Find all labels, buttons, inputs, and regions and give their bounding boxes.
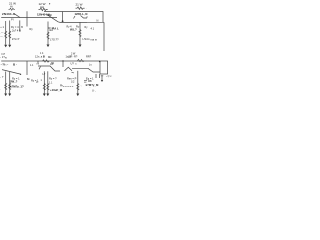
svg-text:U?: U? <box>71 61 75 65</box>
svg-text:AA: AA <box>40 5 44 9</box>
svg-text:2y? 4 B: 2y? 4 B <box>12 28 21 32</box>
svg-text:k?M?y_1?: k?M?y_1? <box>10 84 24 88</box>
svg-text:L?O.??: L?O.?? <box>50 38 59 42</box>
svg-text:U·,: U·, <box>92 89 96 93</box>
svg-text:4 1: 4 1 <box>91 27 95 31</box>
svg-text:+10uF_M: +10uF_M <box>50 88 63 92</box>
svg-text:—.: —. <box>0 35 3 38</box>
svg-text:+ 1: + 1 <box>0 25 4 29</box>
svg-text:N: N <box>97 19 99 23</box>
svg-text:2N404-A: 2N404-A <box>2 12 16 16</box>
svg-text:=1?: =1? <box>1 53 6 56</box>
svg-text:~?⊦.~: ~?⊦.~ <box>1 62 9 66</box>
svg-text:L?k4 k: L?k4 k <box>83 38 91 41</box>
svg-text:Ry·: Ry· <box>76 25 80 28</box>
svg-text:w: w <box>5 56 7 59</box>
svg-text:PI: PI <box>11 18 14 22</box>
svg-text:Mii: Mii <box>48 55 52 59</box>
svg-text:k?M?y_M: k?M?y_M <box>86 83 99 87</box>
svg-text:RR?: RR? <box>86 55 92 59</box>
svg-text:ma m: ma m <box>91 39 97 42</box>
svg-text:21 W: 21 W <box>76 3 83 7</box>
svg-text:2W..?: 2W..? <box>10 79 18 83</box>
svg-text:k?m P: k?m P <box>12 37 20 41</box>
svg-text:2 W: 2 W <box>71 52 76 55</box>
svg-text:2d: 2d <box>48 13 52 17</box>
svg-text:U.: U. <box>36 81 39 84</box>
svg-text:P.A L: P.A L <box>52 26 59 30</box>
svg-text:~?™: ~?™ <box>106 75 112 79</box>
svg-text:B ·: B · <box>13 63 17 67</box>
svg-text:Ry = ?: Ry = ? <box>49 77 57 81</box>
svg-text:Ry 4: Ry 4 <box>67 26 73 29</box>
svg-text:·: · <box>0 88 1 91</box>
svg-text:2·: 2· <box>86 16 88 19</box>
svg-text:Ai: Ai <box>10 5 13 9</box>
